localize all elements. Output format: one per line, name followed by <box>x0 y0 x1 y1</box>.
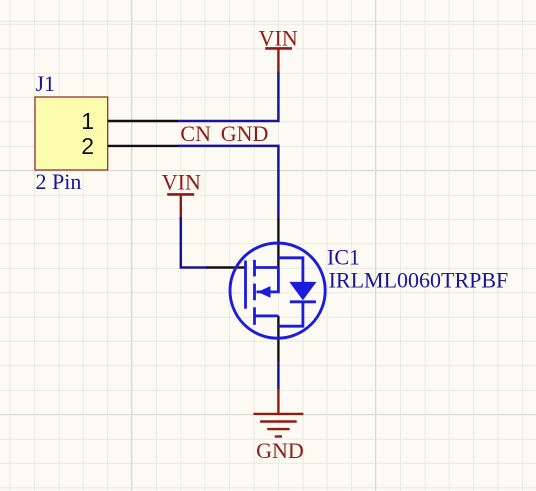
power symbol VIN left <box>167 194 194 218</box>
svg-text:GND: GND <box>221 121 269 146</box>
svg-text:GND: GND <box>256 438 304 463</box>
svg-text:VIN: VIN <box>259 26 298 51</box>
drain pin of IC1 <box>277 218 279 268</box>
connector J1 body <box>35 97 108 170</box>
svg-text:VIN: VIN <box>162 170 201 195</box>
pin 1 of J1 <box>108 120 178 122</box>
gate pin of IC1 <box>207 266 246 268</box>
svg-text:IRLML0060TRPBF: IRLML0060TRPBF <box>329 267 509 292</box>
svg-text:2 Pin: 2 Pin <box>36 169 82 194</box>
wire VIN left to gate of IC1 <box>181 217 208 268</box>
power symbol VIN top <box>265 48 292 72</box>
ground symbol GND <box>253 389 303 437</box>
wire pin 1 to VIN <box>178 72 278 122</box>
wire source of IC1 to GND <box>277 362 280 389</box>
svg-text:J1: J1 <box>36 71 56 96</box>
svg-text:1: 1 <box>81 108 94 134</box>
svg-text:CN: CN <box>180 121 211 146</box>
source pin of IC1 <box>277 316 279 362</box>
svg-text:2: 2 <box>81 133 94 159</box>
wire pin 2 to drain of IC1 <box>178 146 278 218</box>
svg-text:IC1: IC1 <box>327 245 360 270</box>
transistor IC1 MOSFET symbol <box>230 243 325 338</box>
pin 2 of J1 <box>108 145 178 147</box>
